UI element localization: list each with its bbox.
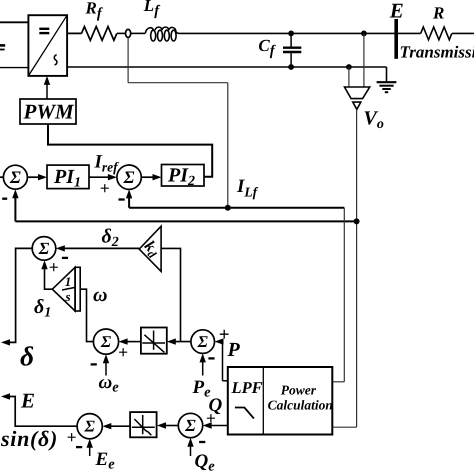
SP minus: [208, 357, 214, 359]
Somega minus: [91, 363, 97, 365]
wire into S1 from left: [0, 176, 3, 178]
Qe arrow: [190, 443, 192, 456]
wire Vo vertical: [332, 109, 356, 427]
svg-text:Qe: Qe: [195, 451, 216, 474]
svg-text:δ2: δ2: [102, 226, 119, 251]
wire kd to Sdelta: [63, 247, 139, 249]
wire omega (Somega to 1/s): [80, 289, 93, 341]
svg-text:Cf: Cf: [258, 36, 276, 59]
svg-text:+: +: [100, 178, 110, 198]
wire PWM to inverter with arrow: [44, 76, 50, 99]
svg-text:Σ: Σ: [100, 332, 112, 351]
wire bottom rail: [67, 66, 386, 68]
svg-text:δ1: δ1: [34, 296, 51, 321]
svg-text:ILf: ILf: [236, 176, 259, 200]
Ee arrow: [89, 444, 91, 456]
S2 minus sign: [119, 198, 125, 200]
svg-text:Rf: Rf: [85, 0, 104, 21]
wire node to Lf: [131, 32, 146, 34]
svg-text:E: E: [20, 389, 35, 413]
node (current sensor circle): [126, 29, 131, 37]
SQ minus: [199, 441, 205, 443]
wire ILf sensor path: [128, 37, 228, 207]
svg-text:Vo: Vo: [364, 108, 384, 133]
svg-text:s: s: [64, 289, 70, 304]
svg-text:LPF: LPF: [231, 378, 263, 397]
wire 1/s out to Sdelta: [45, 266, 53, 289]
summing junction SQ: [178, 413, 202, 437]
svg-text:1: 1: [65, 274, 72, 289]
wire LIM2 to SE: [108, 425, 131, 427]
Pe arrow: [202, 359, 204, 376]
junction dot bottom rail Vo tap: [346, 64, 352, 70]
svg-text:Calculation: Calculation: [268, 398, 333, 413]
gain kd (triangle): [139, 226, 161, 271]
wire DC bottom: [0, 67, 28, 69]
svg-text:Σ: Σ: [9, 167, 21, 187]
wire S2 to PI2: [141, 176, 154, 178]
svg-text:+: +: [118, 342, 128, 362]
power calculation block: [228, 367, 332, 435]
svg-text:ω: ω: [93, 284, 107, 306]
svg-text:E: E: [389, 0, 404, 23]
svg-text:PI2: PI2: [167, 164, 195, 189]
summing junction SP: [191, 330, 215, 354]
Sdelta minus: [62, 257, 68, 259]
wire SQ to LIM2: [163, 425, 179, 427]
wire Vo feedback to sum1: [15, 197, 356, 221]
junction dot top rail Vo tap: [361, 31, 367, 37]
svg-text:+: +: [49, 257, 59, 277]
svg-text:sin(δ): sin(δ): [0, 426, 58, 451]
summing junction Somega: [93, 329, 118, 354]
wire SP to LIM1: [173, 341, 191, 343]
S1 minus sign: [2, 198, 7, 200]
svg-text:Transmission: Transmission: [400, 43, 474, 62]
DC source bars (cut at left edge): [0, 45, 5, 49]
limiter LIM2 (droop block): [130, 412, 157, 437]
wire ILf feedback line: [129, 194, 344, 208]
svg-text:P: P: [227, 339, 241, 361]
svg-text:kd: kd: [139, 238, 163, 262]
resistor Rf: [82, 27, 117, 41]
svg-text:δ: δ: [20, 341, 34, 372]
PI1 block: [47, 165, 89, 189]
svg-text:PI1: PI1: [53, 166, 81, 191]
wire P-row tap to kd: [161, 248, 180, 341]
Vo sensor stubs: [349, 33, 364, 87]
svg-text:+: +: [206, 408, 216, 428]
wire Rf to node: [117, 32, 126, 34]
LPF icon: [235, 408, 254, 419]
wire LIM1 to Somega: [125, 341, 141, 343]
junction dot cap top: [288, 31, 294, 37]
summing junction SE: [77, 414, 102, 439]
resistor R (transmission): [421, 27, 452, 40]
svg-text:Iref: Iref: [94, 151, 120, 174]
omega_e arrow: [105, 360, 107, 376]
wire SE out to E arrow: [9, 397, 77, 427]
svg-text:Σ: Σ: [197, 332, 209, 351]
junction dot Vo feedback: [354, 218, 360, 224]
inductor Lf: [145, 27, 179, 41]
junction dot ILf: [225, 205, 231, 211]
wire S1 to PI1: [27, 176, 40, 178]
svg-text:+: +: [67, 427, 77, 447]
svg-text:Σ: Σ: [184, 416, 196, 435]
wire R to edge: [452, 32, 474, 34]
integrator 1/s (triangle with bar): [52, 267, 80, 311]
wire P into SP: [221, 342, 223, 381]
wire Sdelta output to delta arrow: [9, 248, 32, 342]
svg-text:Σ: Σ: [38, 239, 50, 258]
wire PI1 to S2: [89, 176, 109, 178]
wire bus to R: [396, 32, 421, 34]
svg-text:Lf: Lf: [143, 0, 161, 19]
limiter LIM1 (droop block): [141, 328, 167, 354]
svg-text:Ee: Ee: [95, 449, 116, 473]
Vo sensor (trapezoid buffer): [345, 87, 370, 109]
inverter U1 (DC/AC converter): [28, 15, 67, 76]
junction dot cap bottom: [288, 64, 294, 70]
svg-text:Σ: Σ: [123, 167, 135, 187]
summing junction S1: [3, 165, 27, 189]
svg-text:Power: Power: [281, 382, 317, 397]
svg-text:PWM: PWM: [23, 100, 76, 124]
wire DC top: [0, 21, 28, 23]
PWM block: [20, 99, 76, 124]
label 1/s: [62, 274, 75, 304]
wire AC output: [67, 32, 81, 34]
svg-text:ωe: ωe: [99, 372, 120, 396]
summing junction S2: [117, 165, 141, 189]
svg-text:R: R: [432, 4, 444, 23]
wire Q from LPF to SQ: [209, 425, 228, 427]
wire Lf to bus E: [179, 32, 395, 34]
wire PI2 to PWM: [48, 124, 212, 177]
capacitor Cf: [283, 33, 301, 67]
label Power Calculation: [268, 382, 333, 412]
ground: [377, 67, 397, 92]
SE minus: [76, 446, 82, 448]
bus bar E: [394, 19, 398, 59]
svg-text:Σ: Σ: [84, 417, 96, 436]
PI2 block: [162, 165, 205, 187]
wire ILf to power calc: [332, 208, 344, 382]
summing junction Sdelta: [32, 237, 56, 261]
